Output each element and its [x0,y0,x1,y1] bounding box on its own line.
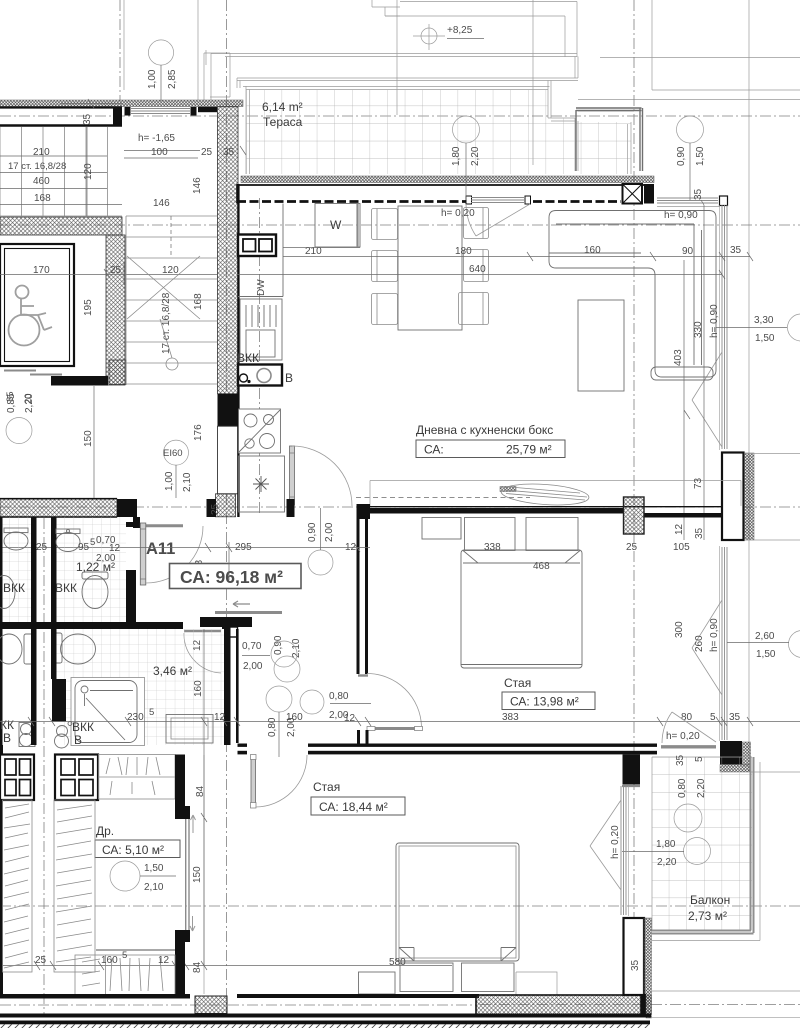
svg-text:210: 210 [33,147,50,158]
living room area box [416,440,565,458]
svg-text:Дневна с кухненски бокс: Дневна с кухненски бокс [416,423,553,437]
svg-text:95: 95 [78,542,90,553]
stair block north wall [0,107,122,127]
svg-text:150: 150 [192,866,203,883]
svg-text:180: 180 [455,246,472,257]
svg-text:В: В [3,731,11,745]
kitchen-hall wall stub [287,499,295,517]
wall corner block x198-217 [198,107,217,112]
axis bubble 2,60 right [727,631,800,661]
bathroom right wall [224,622,237,745]
washer dryer stack left [0,755,34,801]
bottom black line [0,1014,651,1018]
bedroom1 door leaf [367,727,423,731]
svg-text:ВКК: ВКК [237,351,259,365]
svg-text:2,20: 2,20 [470,146,481,166]
terrace perimeter hatched strip [241,176,654,183]
left rooms walls row2 [31,629,57,745]
closet hatched left column [3,800,33,972]
SE column hatch strips [720,742,751,772]
terrace railing thick edge [576,108,643,171]
svg-text:168: 168 [193,293,204,310]
WC row1 tiled floors [2,517,126,622]
corridor top wall [200,617,252,637]
Dr door sliding [186,815,196,931]
elevator front wall [51,376,108,386]
svg-text:В: В [74,733,82,747]
wheelchair symbol [9,286,53,346]
left room toilet row2 [0,634,34,664]
axis horizontal y=116 [0,115,800,117]
Dr room right wall [175,755,190,996]
balcony border thick gray [652,757,754,934]
bathroom left wall thick [52,679,66,722]
dim line y274 [0,262,217,285]
bottom right lines [651,991,800,1018]
axis vertical x=120 [119,0,121,101]
svg-text:h= -1,65: h= -1,65 [138,133,175,144]
kitchen wall vertical hatched band [207,107,239,517]
svg-text:5: 5 [694,756,705,762]
east wall pier [722,453,744,541]
dashed guides in stair area [170,216,172,258]
boiler left room [19,723,35,747]
main dim line y721.5 [0,717,800,726]
svg-text:h= 0,20: h= 0,20 [666,731,700,742]
roof outline upper structure [124,0,800,772]
bathroom toilet [53,633,96,664]
balcony bubbles [674,804,711,865]
svg-text:105: 105 [673,542,690,553]
svg-text:195: 195 [83,299,94,316]
svg-text:146: 146 [153,198,170,209]
svg-text:35: 35 [675,754,686,766]
east wall insulation strip [745,453,755,540]
terrace axis bubble [451,116,481,200]
bed2 pillows [400,963,514,992]
svg-text:176: 176 [193,424,204,441]
dining chairs left column [372,209,398,325]
svg-text:3,46 м²: 3,46 м² [153,664,192,678]
svg-text:5: 5 [90,537,95,548]
svg-text:5: 5 [710,712,716,723]
svg-text:СА:: СА: [424,443,444,457]
svg-text:73: 73 [693,477,704,489]
svg-text:460: 460 [33,176,50,187]
svg-text:2,60: 2,60 [755,631,775,642]
dining table [398,206,462,330]
svg-text:СА: 13,98 м²: СА: 13,98 м² [510,695,579,709]
svg-text:1,50: 1,50 [756,649,776,660]
closet hatched Dr left [54,800,95,972]
bottom wall bedroom2 [237,994,479,998]
bathroom door swing [184,633,221,673]
axis horizontal y=1005 [0,1004,800,1007]
svg-text:25: 25 [35,955,47,966]
kitchen door leaf [290,446,295,505]
svg-text:1,50: 1,50 [755,333,775,344]
bedroom1 west wall [357,504,371,676]
balcony door bedroom1 [661,712,716,747]
bottom crosshatch band [476,995,641,1015]
svg-text:1,80: 1,80 [656,839,676,850]
bedroom2 west glazing [621,786,629,916]
svg-text:80: 80 [681,712,693,723]
dim extension vertical x204 [201,629,207,966]
corridor threshold [215,611,282,614]
axis horizontal y=507 [0,506,800,508]
snowflake symbol [253,476,269,492]
toilet WC left partial [0,576,15,609]
svg-text:12: 12 [344,713,356,724]
axis vertical x=259.5 [259,198,261,516]
svg-text:35: 35 [694,527,705,539]
svg-text:90: 90 [682,246,694,257]
dim line y274 living [237,270,725,279]
east window opening triangle [692,352,722,447]
svg-text:168: 168 [34,193,51,204]
svg-text:260: 260 [694,635,705,652]
bed2 nightstand left [359,972,396,994]
svg-text:120: 120 [83,163,94,180]
svg-text:Стая: Стая [313,780,340,794]
axis vertical x=634 [633,0,635,995]
sideboard line south living [370,481,741,507]
svg-text:ЕІ60: ЕІ60 [163,448,183,459]
entry wall corner block [117,499,137,517]
svg-text:338: 338 [484,542,501,553]
svg-text:146: 146 [192,177,203,194]
hatched column in wall [624,497,645,534]
svg-text:1,80: 1,80 [451,146,462,166]
svg-text:35: 35 [630,959,641,971]
svg-text:150: 150 [83,430,94,447]
closet bottom of Dr [75,955,175,995]
stair start circle [166,358,178,370]
svg-text:0,80: 0,80 [677,778,688,798]
elevator shaft walls hatched [0,217,126,385]
svg-text:84: 84 [192,961,203,973]
bedroom1 area box [502,692,595,710]
entry door jamb below [133,517,140,528]
svg-text:h= 0,20: h= 0,20 [441,208,475,219]
svg-text:403: 403 [673,349,684,366]
svg-text:0,80: 0,80 [267,717,278,737]
svg-text:100: 100 [151,147,168,158]
svg-text:160: 160 [101,955,118,966]
svg-text:0,70: 0,70 [242,641,262,652]
corridor bubbles pair [271,641,300,682]
wardrobe top of Dr room [99,755,176,800]
sofa corner L-shape [549,211,716,381]
boiler circles bathroom [55,722,73,749]
svg-text:17 ст. 16,8/28: 17 ст. 16,8/28 [8,161,66,172]
svg-text:ВКК: ВКК [72,720,94,734]
dim line y547 [0,542,370,580]
kitchen counter edge [238,204,283,297]
svg-text:2,00: 2,00 [243,661,263,672]
svg-text:2,00: 2,00 [324,522,335,542]
level marker +8,25 [413,24,484,50]
stair direction diagonals [127,256,200,358]
svg-text:5: 5 [122,950,127,961]
svg-text:160: 160 [584,245,601,256]
SE corner column black [720,741,742,765]
wall between rows y622 [0,622,237,629]
vanity bathroom [166,715,213,744]
bed bedroom2 [396,843,519,961]
bottom hatched block left [195,996,227,1014]
radiator ellipse [500,481,590,507]
bedroom1 door swing arc [367,674,422,727]
axis bubble x=690 top [676,116,706,200]
svg-text:h= 0,20: h= 0,20 [610,825,621,859]
svg-text:35: 35 [5,391,16,402]
axis horizontal y=225 [0,224,800,226]
svg-text:Стая: Стая [504,676,531,690]
svg-text:300: 300 [674,621,685,638]
east glazing bedroom1 [720,546,728,741]
svg-text:17 ст. 16,8/28: 17 ст. 16,8/28 [161,292,172,354]
svg-text:468: 468 [533,561,550,572]
apartment top exterior wall [237,184,654,204]
svg-text:2,10: 2,10 [144,882,164,893]
WC row1 dividing walls [0,517,136,745]
stairs lower flight treads [126,216,217,385]
svg-text:35: 35 [730,245,742,256]
svg-text:DW: DW [256,279,267,296]
stair dim lines upper [0,99,246,216]
svg-text:h= 0,90: h= 0,90 [709,304,720,338]
corridor bubbles lower pair [266,686,324,714]
bedroom2 pier hatch strip [644,918,652,1015]
svg-text:2,20: 2,20 [657,857,677,868]
window top-east corner jamb [720,196,728,206]
svg-text:Др.: Др. [96,824,114,838]
axis bubble 3,30 right [716,314,800,344]
svg-text:2,85: 2,85 [167,69,178,89]
kitchen door swing arc [292,446,352,506]
dim vertical extension lines [684,200,704,540]
Dr bubble [110,861,140,891]
svg-text:2,10: 2,10 [291,638,302,658]
bedroom2 west pier [624,918,645,995]
Dr area box [95,840,180,858]
svg-text:ВКК: ВКК [3,581,25,595]
Dr room bottom edge [96,949,175,951]
svg-text:СА: 18,44 м²: СА: 18,44 м² [319,800,388,814]
kitchen stove hob [239,409,281,453]
axis bubble top left [147,40,178,101]
svg-text:35: 35 [82,113,93,125]
entry door swing arc [146,526,203,583]
svg-text:Тераса: Тераса [263,115,303,129]
wall living/bedroom1 [364,507,722,518]
kitchen sink double box [238,235,276,257]
terrace door swing [466,204,530,236]
svg-text:КК: КК [0,718,14,732]
lobby bubble x19 [6,393,35,443]
svg-text:25: 25 [626,542,638,553]
bottom pier hatch strip [646,995,652,1018]
svg-text:6,14 m²: 6,14 m² [262,100,303,114]
bedroom2 door swing arc [256,755,308,807]
bedroom2 window opening lines [590,800,621,890]
terrace door window in top wall [466,196,531,204]
svg-text:25,79 м²: 25,79 м² [506,443,552,457]
axis horizontal y=906 [0,905,800,907]
balcony outer line [652,762,760,941]
svg-text:25: 25 [210,503,221,515]
step outline right of bed [516,972,557,995]
svg-text:3,30: 3,30 [754,315,774,326]
bedroom1 south wall double [238,730,658,754]
svg-text:0,90: 0,90 [676,146,687,166]
top wall X column [623,184,643,204]
east wall glazing living room [720,205,728,450]
living room side table [578,300,624,391]
svg-text:35: 35 [729,712,741,723]
corridor arrow [233,601,250,607]
svg-text:330: 330 [693,321,704,338]
fraction line 0,70 2,00 [242,655,270,657]
entry door leaf [140,523,146,585]
svg-text:580: 580 [389,957,406,968]
svg-text:h= 0,90: h= 0,90 [709,618,720,652]
top wall corner black block [644,184,654,204]
svg-text:25: 25 [201,147,213,158]
dim line y965 [0,961,452,970]
svg-text:1,00: 1,00 [147,69,158,89]
entry hatched wall band [0,499,117,517]
stairs upper flight treads [0,127,122,216]
svg-text:12: 12 [674,523,685,535]
bedroom2 door leaf [251,755,257,809]
svg-text:В: В [285,371,293,385]
svg-text:А11: А11 [146,540,175,558]
svg-text:1,50: 1,50 [695,146,706,166]
bottom band pier edge [641,994,646,1018]
bed bedroom1 [461,550,582,668]
bedroom2 west wall line [203,755,205,994]
wall stub below SE wall [622,755,640,787]
svg-text:W: W [330,218,342,232]
svg-text:12: 12 [158,955,170,966]
svg-text:5: 5 [149,707,154,718]
svg-text:0,80: 0,80 [329,691,349,702]
stair block top wall hatched strip [0,100,243,107]
balcony floor tiles [652,757,752,931]
svg-text:1,22 м²: 1,22 м² [76,560,115,574]
bathroom tiled floor [56,629,224,745]
svg-text:h= 0,90: h= 0,90 [664,210,698,221]
bedroom1 window opening triangle [692,600,722,695]
svg-text:20: 20 [23,393,34,404]
kitchen wash basin unit [238,365,282,386]
entry door threshold [141,524,183,527]
hall axis bubble [308,508,333,575]
svg-text:0,90: 0,90 [307,522,318,542]
bottom black band2 [0,1021,650,1025]
elevator sliding door [4,371,62,375]
sink WC left [4,528,28,550]
axis vertical x=44 [43,518,45,1014]
axis vertical x=226.6 [226,0,228,1014]
svg-text:2,20: 2,20 [696,778,707,798]
bottom wall left neighbor [0,994,190,999]
svg-text:2,00: 2,00 [286,717,297,737]
balcony slab edge lines right [751,771,800,773]
svg-text:Балкон: Балкон [690,893,730,907]
svg-text:2,10: 2,10 [182,472,193,492]
svg-text:160: 160 [193,680,204,697]
wardrobe W [315,204,360,248]
svg-text:640: 640 [469,264,486,275]
fire label EI60 [163,440,189,498]
dim line y256 [283,252,753,261]
east window above sofa [657,198,720,207]
svg-text:+8,25: +8,25 [447,25,473,36]
kitchen counter with symbol [239,456,285,512]
hidden wall dashed [356,497,530,499]
svg-text:1,50: 1,50 [144,863,164,874]
svg-text:35: 35 [223,147,235,158]
bedroom2 area box [311,797,405,815]
svg-text:СА: 96,18 м²: СА: 96,18 м² [180,567,283,587]
svg-text:СА: 5,10 м²: СА: 5,10 м² [102,843,164,857]
svg-text:1,00: 1,00 [164,471,175,491]
left edge wall [0,745,3,998]
terrace floor tiles [243,86,631,174]
elevator cab [0,244,74,366]
kitchen tall cabinet fridge [240,299,282,360]
sink WC ours [56,529,80,552]
balcony slab lines right [745,454,800,541]
window in stair north wall [125,107,197,116]
svg-text:ВКК: ВКК [55,581,77,595]
apartment area box CA 96,18 [170,564,302,589]
bedroom1 closet boxes [422,518,578,551]
toilet WC ours [82,572,108,609]
dining chairs right column [459,208,489,325]
bottom diagonal hatch strip [0,1024,650,1028]
washer dryer stack ours [55,755,98,801]
svg-text:25: 25 [36,542,48,553]
shower tray [71,678,145,746]
svg-text:35: 35 [693,188,704,200]
bathroom door threshold [184,630,221,633]
svg-text:2,73 м²: 2,73 м² [688,909,727,923]
